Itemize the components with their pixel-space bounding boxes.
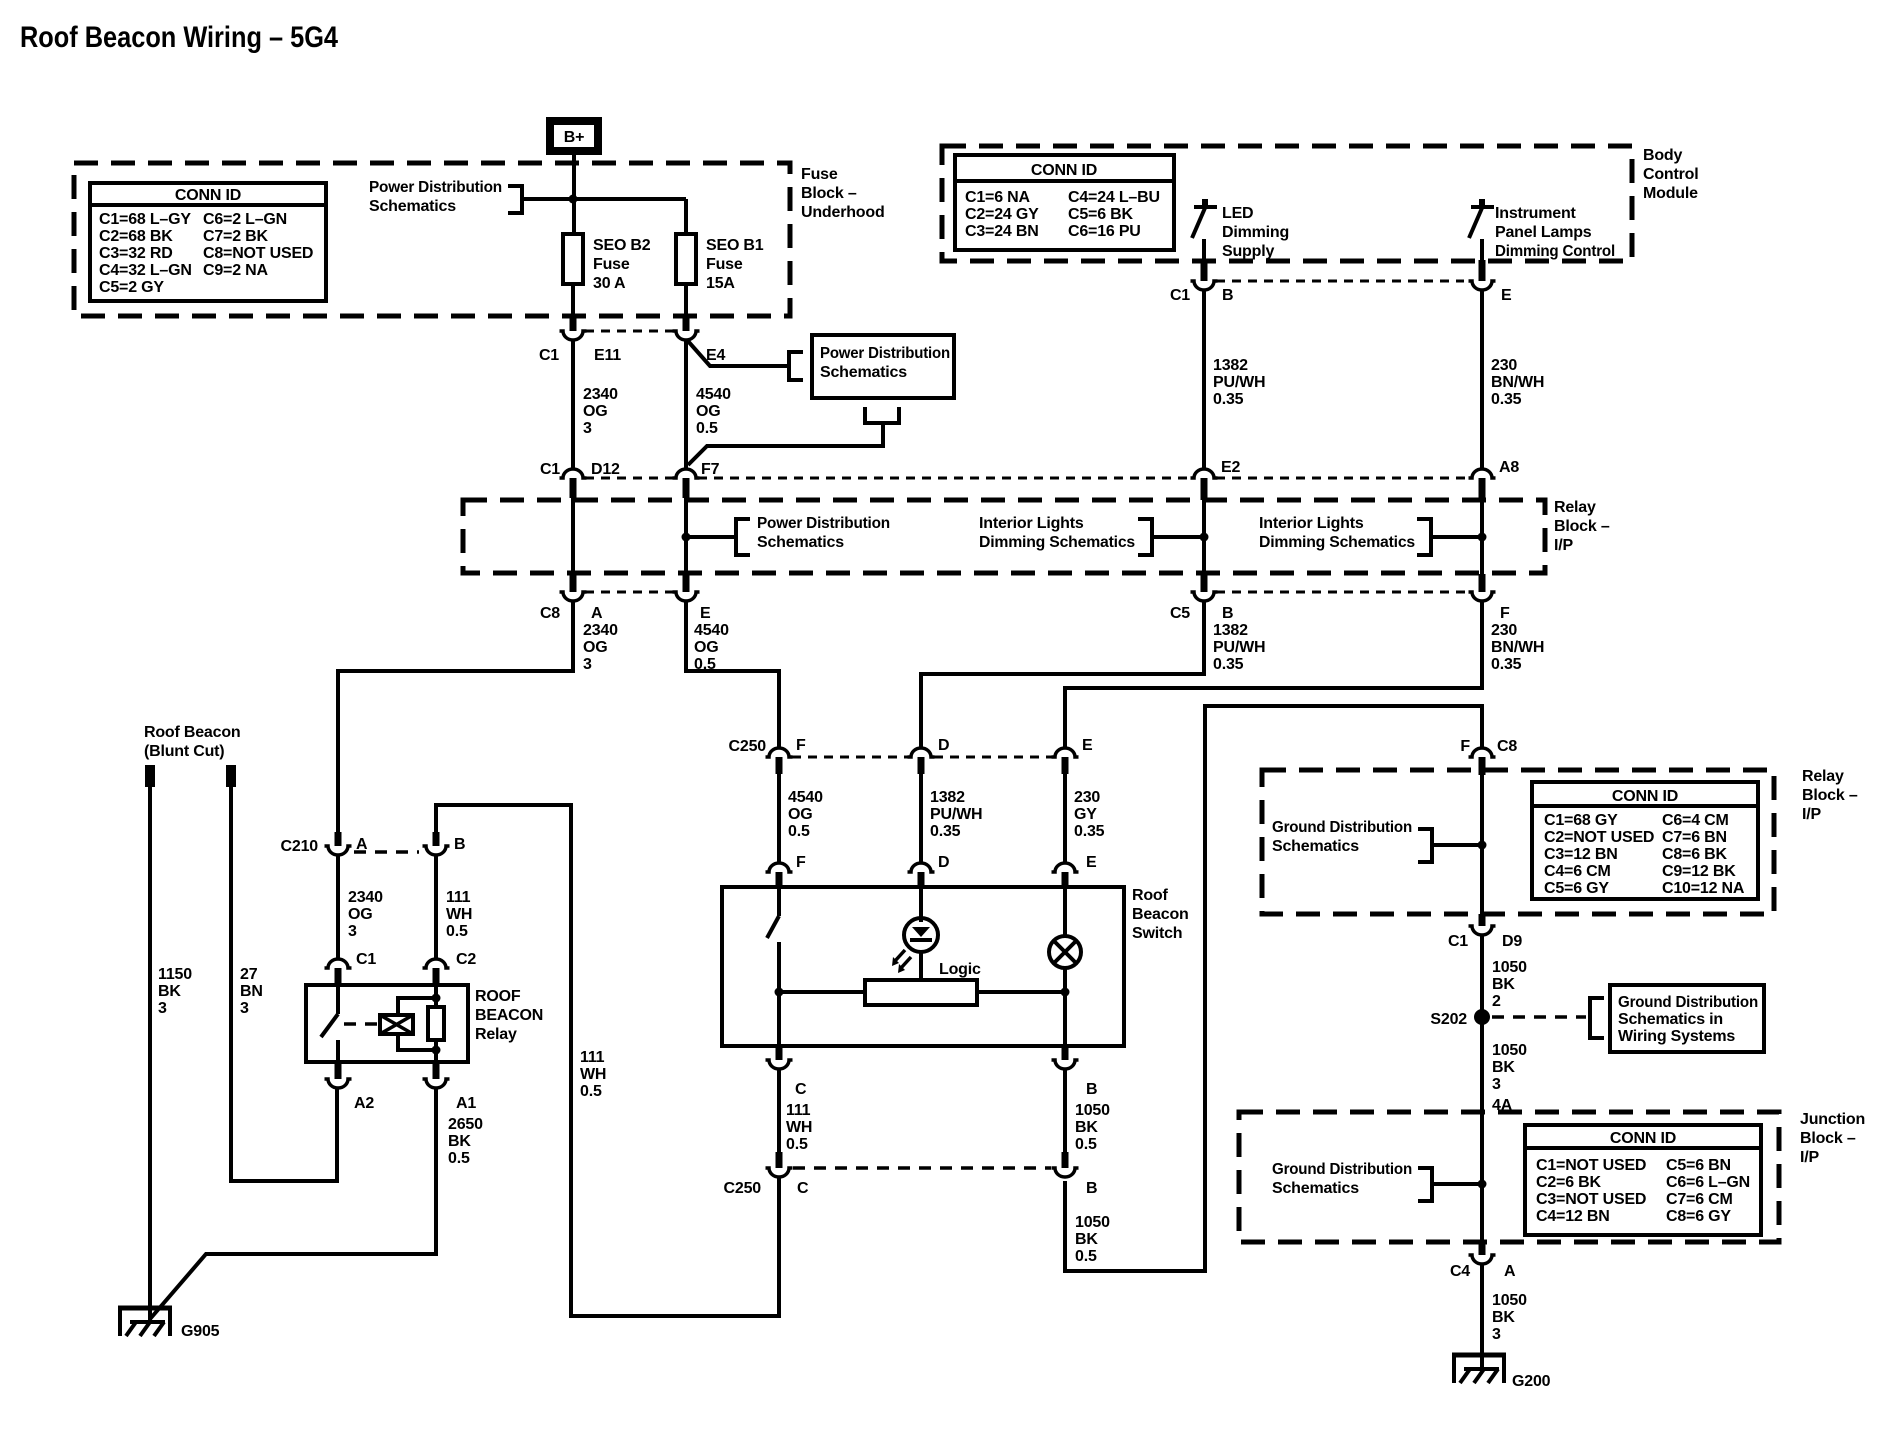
connector F (relay block out) (1469, 574, 1511, 622)
roof beacon relay label (475, 988, 543, 1043)
wire label 1050 BK 3 4A (1492, 1042, 1527, 1114)
svg-text:4540: 4540 (696, 386, 731, 403)
bracket interior lights 2 (1417, 519, 1431, 555)
svg-text:Module: Module (1643, 185, 1698, 202)
svg-text:Roof: Roof (1132, 887, 1169, 904)
svg-text:CONN ID: CONN ID (1031, 162, 1097, 179)
svg-text:2340: 2340 (348, 889, 383, 906)
svg-text:111: 111 (446, 889, 471, 906)
connector relay A2 (325, 1062, 375, 1112)
svg-text:4540: 4540 (694, 622, 729, 639)
connector F C8 (1460, 738, 1517, 775)
wire label 2340 OG 3 (lower) (583, 622, 618, 673)
svg-text:G905: G905 (181, 1323, 220, 1340)
wire label 1150 BK 3 (158, 966, 192, 1017)
svg-text:BK: BK (1075, 1231, 1098, 1248)
wire ground trunk top (long vertical) (1065, 706, 1482, 1271)
connector E2 (1191, 459, 1241, 500)
svg-text:E: E (1082, 737, 1093, 754)
wire label 2340 OG 3 (upper) (583, 386, 618, 437)
svg-text:Interior Lights: Interior Lights (1259, 515, 1364, 532)
wire C250 F to switch F (777, 774, 781, 862)
svg-text:G200: G200 (1512, 1373, 1551, 1390)
svg-text:OG: OG (788, 806, 813, 823)
wire label 111 WH 0.5 (switch C) (786, 1102, 812, 1153)
wire LED dimming supply down (1202, 239, 1206, 263)
dashed actuator link (344, 1022, 378, 1026)
svg-text:C7=6 BN: C7=6 BN (1662, 829, 1727, 846)
wire C4 A to G200 (1480, 1265, 1484, 1369)
dashed connector lineup C250 C-B (793, 1166, 1051, 1170)
svg-text:C2=NOT USED: C2=NOT USED (1544, 829, 1654, 846)
wire label 230 GY 0.35 (C250) (1074, 789, 1105, 840)
svg-text:ROOF: ROOF (475, 988, 521, 1005)
wire logic right (977, 988, 1070, 997)
svg-text:A8: A8 (1499, 459, 1519, 476)
svg-text:C1=68 L–GY: C1=68 L–GY (99, 211, 191, 228)
conn id table (junction block IP) (1525, 1125, 1761, 1235)
svg-text:Relay: Relay (1554, 499, 1596, 516)
svg-text:E: E (700, 605, 711, 622)
wire C250 D to switch D (919, 774, 923, 862)
connector C1 D9 (1448, 914, 1522, 950)
dashed connector lineup E11-E4 (585, 330, 674, 333)
svg-text:2650: 2650 (448, 1116, 483, 1133)
fuse block underhood dashed box (74, 163, 790, 316)
bracket ground distribution 1 (1418, 829, 1432, 862)
svg-text:30 A: 30 A (593, 275, 626, 292)
roof beacon switch label (1132, 887, 1189, 942)
svg-text:OG: OG (583, 403, 608, 420)
svg-text:C1: C1 (1448, 933, 1468, 950)
relay block IP label (middle) (1554, 499, 1610, 554)
ground distribution ref 1 (1272, 819, 1412, 855)
wire switch B down (1063, 1070, 1067, 1152)
svg-text:C3=12 BN: C3=12 BN (1544, 846, 1618, 863)
svg-text:1382: 1382 (930, 789, 965, 806)
svg-text:0.5: 0.5 (1075, 1248, 1097, 1265)
svg-text:Fuse: Fuse (593, 256, 630, 273)
svg-text:OG: OG (348, 906, 373, 923)
wire label 2340 OG 3 (C210 A) (348, 889, 383, 940)
svg-text:111: 111 (580, 1049, 605, 1066)
wire 27 BN to A2 join (231, 787, 337, 1181)
svg-text:C6=2 L–GN: C6=2 L–GN (203, 211, 287, 228)
svg-text:C8: C8 (1497, 738, 1517, 755)
svg-text:C5=6 BN: C5=6 BN (1666, 1157, 1731, 1174)
svg-text:C: C (795, 1081, 807, 1098)
wire F to C250 E (1065, 602, 1482, 747)
svg-text:Schematics: Schematics (757, 534, 844, 551)
bracket for power distribution box (right) (789, 352, 803, 380)
svg-text:Schematics: Schematics (820, 364, 907, 381)
fuse SEO B2 30A (563, 234, 651, 292)
wire label 1382 PU/WH 0.35 (upper) (1213, 357, 1265, 408)
bracket power distribution (in relay block) (736, 519, 750, 555)
svg-text:1050: 1050 (1075, 1102, 1110, 1119)
connector C250 D (908, 737, 950, 774)
power distribution schematics note (top left) (369, 179, 502, 215)
svg-text:CONN ID: CONN ID (1612, 788, 1678, 805)
dashed connector lineup D12-F7-E2-A8 (585, 477, 1470, 480)
svg-text:SEO B1: SEO B1 (706, 237, 764, 254)
wire label 1382 PU/WH 0.35 (lower) (1213, 622, 1265, 673)
svg-text:0.5: 0.5 (786, 1136, 808, 1153)
svg-text:C10=12 NA: C10=12 NA (1662, 880, 1745, 897)
ground distribution ref 2 (1272, 1161, 1412, 1197)
svg-text:3: 3 (583, 656, 592, 673)
ground G905 (118, 1308, 220, 1340)
svg-text:0.5: 0.5 (696, 420, 718, 437)
svg-text:Ground Distribution: Ground Distribution (1272, 819, 1412, 836)
svg-text:C5=6 GY: C5=6 GY (1544, 880, 1609, 897)
svg-text:I/P: I/P (1802, 806, 1821, 823)
svg-text:1050: 1050 (1492, 959, 1527, 976)
wire label 1050 BK 0.5 (switch B) (1075, 1102, 1110, 1153)
connector relay C1 (325, 951, 377, 985)
conn id table (fuse block underhood) (90, 183, 326, 301)
svg-text:BK: BK (1492, 1309, 1515, 1326)
svg-text:1382: 1382 (1213, 357, 1248, 374)
svg-text:Block –: Block – (1802, 787, 1858, 804)
wire label 4540 OG 0.5 (upper) (696, 386, 731, 437)
wire fuse B2 output (571, 284, 575, 316)
connector C4 A (1450, 1242, 1516, 1280)
svg-text:C6=6 L–GN: C6=6 L–GN (1666, 1174, 1750, 1191)
wire bracket to col3 (1152, 533, 1209, 542)
wire 1382 PU/WH B to E2 (1202, 291, 1206, 469)
svg-text:Block –: Block – (801, 185, 857, 202)
svg-text:E11: E11 (594, 347, 621, 364)
svg-text:S202: S202 (1430, 1011, 1467, 1028)
svg-text:B: B (1222, 605, 1233, 622)
svg-text:3: 3 (1492, 1326, 1501, 1343)
wire label 111 WH 0.5 (tall run) (580, 1049, 606, 1100)
svg-text:BN/WH: BN/WH (1491, 639, 1544, 656)
body control module dashed box (942, 146, 1632, 261)
wire label 4540 OG 0.5 (C250) (788, 789, 823, 840)
svg-text:OG: OG (694, 639, 719, 656)
svg-text:D: D (938, 854, 949, 871)
blunt cut stub 27 BN (226, 765, 236, 787)
svg-text:Switch: Switch (1132, 925, 1182, 942)
svg-text:BK: BK (158, 983, 181, 1000)
wire 230 BN/WH E to A8 (1480, 291, 1484, 469)
wire through relay block col3 (1202, 500, 1206, 574)
svg-text:B: B (1086, 1081, 1097, 1098)
wire D9 to junction block (1480, 936, 1484, 1112)
svg-text:0.35: 0.35 (1491, 656, 1522, 673)
svg-text:Schematics in: Schematics in (1618, 1011, 1723, 1028)
bracket interior lights 1 (1138, 519, 1152, 555)
svg-text:Block –: Block – (1554, 518, 1610, 535)
LED indicator (roof beacon switch) (892, 887, 938, 980)
wire label 1050 BK 0.5 (below C250 B) (1075, 1214, 1110, 1265)
wire C250 C to tall 111 WH run (436, 805, 779, 1316)
svg-text:C3=32 RD: C3=32 RD (99, 245, 173, 262)
svg-text:Control: Control (1643, 166, 1698, 183)
svg-text:C250: C250 (724, 1180, 762, 1197)
wire label 1050 BK 3 (to G200) (1492, 1292, 1527, 1343)
wire from bracket to F7 tap (688, 423, 883, 465)
ground distribution in wiring systems box (1610, 985, 1764, 1052)
svg-text:0.5: 0.5 (1075, 1136, 1097, 1153)
wire E to C250 F (686, 602, 779, 747)
node and wire to power distribution ref in relay block (682, 533, 737, 542)
svg-text:C1=68 GY: C1=68 GY (1544, 812, 1618, 829)
svg-text:WH: WH (580, 1066, 606, 1083)
svg-text:3: 3 (348, 923, 357, 940)
switch contact (roof beacon switch) (767, 887, 779, 1046)
wire label 230 BN/WH 0.35 (lower) (1491, 622, 1544, 673)
dashed connector lineup C250 F-D-E (792, 756, 1052, 759)
svg-text:C4=6 CM: C4=6 CM (1544, 863, 1611, 880)
svg-text:E: E (1501, 287, 1512, 304)
svg-text:F: F (1500, 605, 1510, 622)
wire E4 tap to power distribution box (687, 340, 787, 366)
svg-text:Roof Beacon: Roof Beacon (144, 724, 240, 741)
svg-text:230: 230 (1491, 357, 1517, 374)
svg-text:C1=6 NA: C1=6 NA (965, 189, 1030, 206)
bracket ground distribution in wiring systems (1590, 998, 1604, 1038)
wire bracket to trunk (1432, 841, 1487, 850)
relay solenoid core symbol (380, 1015, 413, 1034)
svg-text:Schematics: Schematics (369, 198, 456, 215)
svg-text:0.5: 0.5 (448, 1150, 470, 1167)
instrument panel lamps pin icon (1469, 199, 1494, 238)
svg-text:C4: C4 (1450, 1263, 1470, 1280)
svg-text:Logic: Logic (939, 961, 981, 978)
svg-text:C8=NOT USED: C8=NOT USED (203, 245, 313, 262)
svg-text:C6=4 CM: C6=4 CM (1662, 812, 1729, 829)
svg-text:C2=24 GY: C2=24 GY (965, 206, 1039, 223)
svg-text:C2: C2 (456, 951, 476, 968)
svg-text:C7=6 CM: C7=6 CM (1666, 1191, 1733, 1208)
relay coil branch (398, 985, 444, 1062)
wire C5/B to C250 D (921, 602, 1204, 747)
wire B1 branch down (684, 199, 688, 234)
roof beacon relay box (306, 985, 468, 1062)
svg-text:C3=NOT USED: C3=NOT USED (1536, 1191, 1646, 1208)
svg-text:Interior Lights: Interior Lights (979, 515, 1084, 532)
lamp indicator (roof beacon switch) (1049, 887, 1081, 1046)
svg-text:OG: OG (583, 639, 608, 656)
svg-text:C8=6 BK: C8=6 BK (1662, 846, 1727, 863)
node junction at B+ feed (569, 195, 578, 204)
wire label 111 WH 0.5 (C210 B) (446, 889, 472, 940)
svg-text:C: C (797, 1180, 809, 1197)
svg-text:Dimming Control: Dimming Control (1495, 243, 1615, 260)
svg-text:C5=2 GY: C5=2 GY (99, 279, 164, 296)
wire through relay block col2 (684, 498, 688, 574)
wire label 27 BN 3 (240, 966, 263, 1017)
svg-text:CONN ID: CONN ID (1610, 1130, 1676, 1147)
connector E (BCM) (1469, 260, 1513, 304)
relay block IP dashed box (middle) (463, 500, 1545, 573)
svg-text:C5: C5 (1170, 605, 1190, 622)
wire junction block internal (1480, 1112, 1484, 1242)
svg-text:2: 2 (1492, 993, 1501, 1010)
svg-text:Power Distribution: Power Distribution (820, 345, 950, 362)
svg-text:Relay: Relay (475, 1026, 517, 1043)
svg-text:0.5: 0.5 (446, 923, 468, 940)
svg-text:C3=24 BN: C3=24 BN (965, 223, 1039, 240)
dashed connector lineup C210 A-B (354, 850, 419, 854)
svg-text:1150: 1150 (158, 966, 192, 983)
blunt cut stub 1150 BK (145, 765, 155, 787)
fuse block underhood label (801, 166, 885, 221)
svg-text:230: 230 (1074, 789, 1100, 806)
svg-text:D9: D9 (1502, 933, 1522, 950)
svg-text:Relay: Relay (1802, 768, 1844, 785)
svg-text:Beacon: Beacon (1132, 906, 1189, 923)
connector C1 D12 (540, 461, 620, 498)
svg-text:C1=NOT USED: C1=NOT USED (1536, 1157, 1646, 1174)
junction block IP dashed box (1239, 1112, 1779, 1242)
svg-text:GY: GY (1074, 806, 1097, 823)
svg-text:111: 111 (786, 1102, 811, 1119)
svg-text:C4=32 L–GN: C4=32 L–GN (99, 262, 192, 279)
wire label 2650 BK 0.5 (448, 1116, 483, 1167)
svg-text:(Blunt Cut): (Blunt Cut) (144, 743, 224, 760)
svg-text:Block –: Block – (1800, 1130, 1856, 1147)
svg-text:Ground Distribution: Ground Distribution (1272, 1161, 1412, 1178)
svg-text:3: 3 (240, 1000, 249, 1017)
svg-text:C7=2 BK: C7=2 BK (203, 228, 268, 245)
svg-text:A: A (1504, 1263, 1516, 1280)
connector C5 B (1170, 574, 1233, 622)
wire C210 A to relay C1 (336, 856, 340, 958)
svg-text:C1: C1 (539, 347, 559, 364)
wire through relay block col4 (1480, 500, 1484, 574)
svg-text:Fuse: Fuse (801, 166, 838, 183)
svg-text:SEO B2: SEO B2 (593, 237, 651, 254)
svg-text:C8: C8 (540, 605, 560, 622)
svg-text:Underhood: Underhood (801, 204, 885, 221)
svg-text:230: 230 (1491, 622, 1517, 639)
svg-text:PU/WH: PU/WH (1213, 639, 1265, 656)
wire 2340 OG from E11 to D12 (571, 341, 575, 469)
svg-text:Panel Lamps: Panel Lamps (1495, 224, 1592, 241)
splice S202 (1430, 1009, 1490, 1028)
wire bracket to col4 (1431, 533, 1487, 542)
interior lights dimming ref 1 (979, 515, 1135, 551)
svg-text:Dimming Schematics: Dimming Schematics (979, 534, 1135, 551)
instrument panel lamps dimming control label (1495, 205, 1615, 260)
wire B+ down (572, 155, 576, 234)
LED dimming supply pin icon (1192, 199, 1217, 238)
wire logic left (775, 988, 866, 997)
connector C8 A (540, 574, 603, 622)
wire label 4540 OG 0.5 (lower) (694, 622, 729, 673)
svg-text:1050: 1050 (1492, 1042, 1527, 1059)
logic box (roof beacon switch) (865, 961, 981, 1005)
connector switch E (1052, 854, 1098, 888)
connector relay C2 (423, 951, 477, 985)
svg-text:Ground Distribution: Ground Distribution (1618, 994, 1758, 1011)
svg-text:C4=24 L–BU: C4=24 L–BU (1068, 189, 1160, 206)
svg-text:2340: 2340 (583, 386, 618, 403)
svg-text:WH: WH (446, 906, 472, 923)
wire C210 B to relay C2 (434, 856, 438, 958)
svg-text:0.35: 0.35 (1213, 391, 1244, 408)
roof beacon blunt cut label (144, 724, 240, 760)
interior lights dimming ref 2 (1259, 515, 1415, 551)
svg-text:1050: 1050 (1492, 1292, 1527, 1309)
wire label 230 BN/WH 0.35 (upper) (1491, 357, 1544, 408)
svg-text:A: A (591, 605, 603, 622)
svg-text:C5=6 BK: C5=6 BK (1068, 206, 1133, 223)
wire through relay block IP (1480, 775, 1484, 914)
svg-text:1382: 1382 (1213, 622, 1248, 639)
bracket ground distribution 2 (1418, 1168, 1432, 1201)
bracket for power distribution note (508, 186, 522, 213)
wire C250 E to switch E (1063, 774, 1067, 862)
svg-text:0.35: 0.35 (1213, 656, 1244, 673)
svg-text:PU/WH: PU/WH (930, 806, 982, 823)
connector E (relay block out) (673, 574, 712, 622)
connector C1 B (BCM) (1170, 260, 1233, 304)
roof beacon switch box (722, 887, 1124, 1046)
wire through relay block col1 (571, 498, 575, 574)
svg-text:C9=2 NA: C9=2 NA (203, 262, 268, 279)
fuse SEO B1 15A (676, 234, 764, 292)
svg-text:BK: BK (448, 1133, 471, 1150)
svg-text:C250: C250 (729, 738, 767, 755)
svg-text:1050: 1050 (1075, 1214, 1110, 1231)
connector C250 C (724, 1152, 809, 1197)
svg-text:C1: C1 (540, 461, 560, 478)
svg-text:15A: 15A (706, 275, 735, 292)
connector relay A1 (423, 1062, 477, 1112)
svg-text:C9=12 BK: C9=12 BK (1662, 863, 1736, 880)
connector C250 E (1052, 737, 1094, 774)
svg-text:C2=68 BK: C2=68 BK (99, 228, 173, 245)
relay block IP label (right) (1802, 768, 1858, 823)
svg-text:PU/WH: PU/WH (1213, 374, 1265, 391)
svg-text:BN: BN (240, 983, 263, 1000)
svg-text:C4=12 BN: C4=12 BN (1536, 1208, 1610, 1225)
wire label 1050 BK 2 (1492, 959, 1527, 1010)
wire fuse B1 output (684, 284, 688, 316)
svg-text:Supply: Supply (1222, 243, 1274, 260)
battery feed B+ symbol (550, 121, 598, 151)
svg-text:Schematics: Schematics (1272, 1180, 1359, 1197)
svg-text:Power Distribution: Power Distribution (757, 515, 890, 532)
svg-text:C210: C210 (281, 838, 319, 855)
conn id table (body control module) (955, 155, 1174, 250)
svg-text:C6=16 PU: C6=16 PU (1068, 223, 1141, 240)
svg-text:2340: 2340 (583, 622, 618, 639)
svg-text:BK: BK (1492, 976, 1515, 993)
connector A8 (1469, 459, 1520, 500)
wire switch C down (777, 1070, 781, 1152)
svg-text:3: 3 (158, 1000, 167, 1017)
svg-text:LED: LED (1222, 205, 1253, 222)
svg-text:B: B (454, 836, 465, 853)
dashed connector lineup row3 (585, 591, 1470, 594)
svg-text:BN/WH: BN/WH (1491, 374, 1544, 391)
svg-text:CONN ID: CONN ID (175, 187, 241, 204)
svg-text:Power Distribution: Power Distribution (369, 179, 502, 196)
title (20, 21, 338, 54)
relay block IP dashed box (right) (1262, 770, 1774, 914)
svg-text:WH: WH (786, 1119, 812, 1136)
svg-text:I/P: I/P (1554, 537, 1573, 554)
svg-text:C1: C1 (356, 951, 376, 968)
connector F7 (673, 461, 720, 498)
conn id table (relay block IP) (1532, 782, 1758, 899)
